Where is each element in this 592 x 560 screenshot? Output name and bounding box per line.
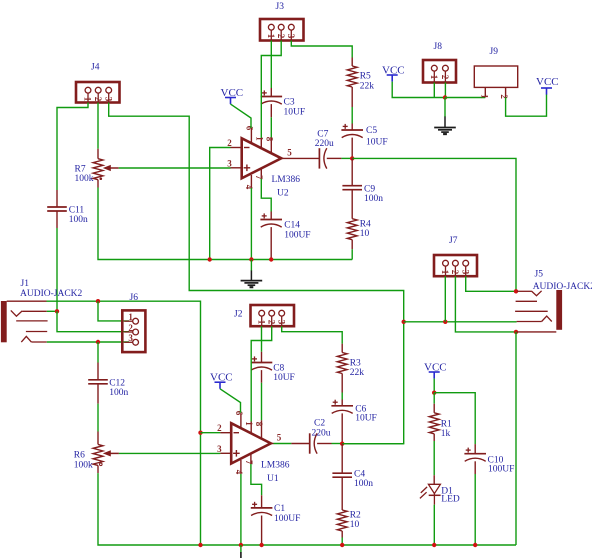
U1 pin8 lead xyxy=(254,420,264,438)
svg-text:100n: 100n xyxy=(354,479,373,489)
trimpot R7 100k xyxy=(75,149,119,188)
wire VCC to R1 xyxy=(433,393,435,404)
node J5 tip junction xyxy=(514,289,518,293)
capacitor C10 100UF xyxy=(464,444,514,474)
node upper output junction xyxy=(350,156,354,160)
wire output node to J5 tip xyxy=(352,158,516,291)
op-amp U2 LM386 xyxy=(242,138,301,198)
svg-text:10UF: 10UF xyxy=(284,108,306,118)
capacitor C4 100n xyxy=(332,444,373,510)
wire J1 ring to J6.3 xyxy=(47,341,129,343)
wire VCC down xyxy=(433,379,435,393)
wire U2 pin2 to GND rail xyxy=(210,148,231,260)
wire junction to J6.1 xyxy=(98,301,129,321)
svg-text:1: 1 xyxy=(429,75,439,80)
wire J2.1 to C8 xyxy=(261,326,263,352)
svg-text:J7: J7 xyxy=(449,236,458,246)
wire J7.3 to J5 tip xyxy=(466,276,516,291)
svg-text:22k: 22k xyxy=(350,368,365,378)
node U2 pin2 rail junction xyxy=(208,257,212,261)
wire J4.1 to C11 xyxy=(57,103,88,191)
svg-text:2: 2 xyxy=(128,323,133,333)
node C12 junction xyxy=(96,340,100,344)
wire J7.2 to J5 sleeve xyxy=(455,276,516,332)
svg-text:3: 3 xyxy=(103,97,113,102)
wire C10 to bottom rail xyxy=(474,474,476,545)
capacitor C3 10UF xyxy=(261,88,306,118)
svg-text:C8: C8 xyxy=(273,364,284,374)
wire J1 tip to node xyxy=(47,310,57,312)
svg-text:1: 1 xyxy=(128,312,133,322)
svg-text:C11: C11 xyxy=(69,206,85,216)
svg-text:2: 2 xyxy=(276,34,286,39)
capacitor C9 100n xyxy=(342,158,383,218)
resistor R5 22k xyxy=(347,58,374,108)
svg-text:1k: 1k xyxy=(441,429,451,439)
svg-text:C14: C14 xyxy=(284,221,300,231)
wire J8.1 stub xyxy=(433,83,435,98)
wire C11 to J1 tip node xyxy=(56,228,58,311)
capacitor C6 10UF xyxy=(331,400,376,444)
wire VCC to J8 junction xyxy=(392,82,445,98)
wire J5 sleeve to bottom rail xyxy=(515,332,517,545)
svg-text:J1: J1 xyxy=(21,279,30,289)
svg-text:J2: J2 xyxy=(234,310,243,320)
U1 pin4 lead xyxy=(234,460,244,475)
wire C2 to output node xyxy=(332,443,343,445)
wire ring line xyxy=(404,321,517,323)
wire U1 pin7 to C1 xyxy=(251,464,262,495)
node C10 rail junction xyxy=(473,543,477,547)
svg-text:3: 3 xyxy=(217,444,222,454)
VCC symbol above U1 xyxy=(210,372,233,389)
svg-text:100n: 100n xyxy=(69,215,88,225)
connector J8 xyxy=(423,42,456,83)
svg-text:5: 5 xyxy=(287,147,292,157)
resistor R2 10 xyxy=(337,510,361,538)
VCC symbol above U2 xyxy=(221,87,244,104)
svg-text:2: 2 xyxy=(93,97,103,102)
resistor R1 1k xyxy=(429,404,452,441)
svg-text:C4: C4 xyxy=(354,470,365,480)
svg-text:8: 8 xyxy=(254,422,264,427)
wire output node right xyxy=(342,443,404,445)
trimpot R6 100k xyxy=(74,432,119,474)
svg-text:100UF: 100UF xyxy=(284,231,310,241)
wire J2.2 to U1 pin1 xyxy=(251,326,272,421)
wire J3.1 to C3 xyxy=(270,41,272,89)
node J7.1 junction xyxy=(443,320,447,324)
svg-text:5: 5 xyxy=(277,432,282,442)
wire U1 pin4 to bottom rail xyxy=(240,474,242,545)
svg-text:6: 6 xyxy=(244,126,254,131)
svg-text:2: 2 xyxy=(450,270,460,275)
wire U2 pin7 to C14 xyxy=(261,179,271,212)
svg-text:2: 2 xyxy=(499,94,509,99)
capacitor C7 220u xyxy=(315,130,342,169)
U2 pin3 lead xyxy=(227,158,241,168)
svg-text:100n: 100n xyxy=(109,388,128,398)
svg-text:J6: J6 xyxy=(130,293,139,303)
wire J1 sleeve rail to U1 pin2 xyxy=(47,301,201,545)
svg-text:100k: 100k xyxy=(74,460,93,470)
svg-text:7: 7 xyxy=(244,460,254,465)
node C14 rail junction xyxy=(269,257,273,261)
svg-text:1: 1 xyxy=(254,136,264,141)
svg-text:J9: J9 xyxy=(490,47,499,57)
svg-text:1: 1 xyxy=(244,421,254,426)
svg-text:R2: R2 xyxy=(350,511,361,521)
svg-text:R5: R5 xyxy=(360,72,371,82)
svg-text:AUDIO-JACK2: AUDIO-JACK2 xyxy=(533,282,592,292)
svg-text:R4: R4 xyxy=(360,220,371,230)
svg-text:10UF: 10UF xyxy=(366,138,388,148)
op-amp U1 LM386 xyxy=(231,423,290,484)
LED D1 xyxy=(420,475,460,505)
svg-text:R1: R1 xyxy=(441,420,452,430)
wire J7.1 down xyxy=(444,276,446,322)
ground below U2 xyxy=(241,260,263,288)
svg-text:R3: R3 xyxy=(350,359,361,369)
svg-text:C2: C2 xyxy=(314,419,325,429)
svg-text:LED: LED xyxy=(441,495,460,505)
wire J4.2 to R7 xyxy=(97,103,99,149)
node feedback junction xyxy=(402,320,406,324)
node J1 tip junction xyxy=(55,309,59,313)
svg-text:1: 1 xyxy=(266,34,276,39)
capacitor C12 100n xyxy=(88,363,128,404)
wire C3 to U2 pin8 xyxy=(270,117,272,138)
capacitor C1 100UF xyxy=(251,495,301,545)
svg-text:220u: 220u xyxy=(315,139,334,149)
U2 pin5 lead xyxy=(281,147,319,158)
svg-text:C3: C3 xyxy=(284,98,295,108)
VCC symbol right of J9 xyxy=(536,76,559,95)
node lower output junction xyxy=(340,442,344,446)
svg-text:1: 1 xyxy=(83,97,93,102)
svg-text:U2: U2 xyxy=(277,189,289,199)
svg-text:22k: 22k xyxy=(360,82,375,92)
svg-text:C9: C9 xyxy=(364,185,375,195)
node VCC junction xyxy=(432,391,436,395)
svg-text:10: 10 xyxy=(360,229,370,239)
svg-text:10UF: 10UF xyxy=(355,414,377,424)
wire VCC to U1 pin6 xyxy=(220,389,241,413)
node J5 sleeve junction xyxy=(514,330,518,334)
svg-text:J4: J4 xyxy=(91,63,100,73)
svg-text:6: 6 xyxy=(234,411,244,416)
connector J4 xyxy=(76,63,120,103)
node D1 rail junction xyxy=(432,543,436,547)
svg-text:C5: C5 xyxy=(366,126,377,136)
svg-text:AUDIO-JACK2: AUDIO-JACK2 xyxy=(20,289,83,299)
svg-text:8: 8 xyxy=(264,137,274,142)
svg-text:2: 2 xyxy=(227,138,232,148)
wire R6 wiper to U1 pin3 xyxy=(119,452,220,454)
wire C8 to U1 pin8 xyxy=(261,383,263,421)
svg-text:2: 2 xyxy=(217,423,222,433)
capacitor C2 220u xyxy=(274,419,332,454)
svg-text:2: 2 xyxy=(266,320,276,325)
wire J3.3 to R5 xyxy=(291,41,352,58)
VCC symbol above R1 xyxy=(424,362,447,379)
svg-text:C12: C12 xyxy=(109,379,125,389)
svg-text:R7: R7 xyxy=(75,165,86,175)
wire tip node to J6.2 xyxy=(57,311,129,331)
svg-text:VCC: VCC xyxy=(221,87,244,99)
svg-text:J3: J3 xyxy=(276,2,285,12)
wire J8.2 stub xyxy=(444,83,446,98)
wire J3.2 to U2 pin1 xyxy=(261,41,281,139)
node J8 junction xyxy=(443,95,447,99)
svg-text:220u: 220u xyxy=(312,429,331,439)
wire U2 pin4 to GND rail xyxy=(250,188,252,260)
wire J4.3 feedback to U1 output node xyxy=(109,103,404,444)
svg-text:U1: U1 xyxy=(267,474,279,484)
wire R1 to D1 xyxy=(433,441,435,475)
svg-text:VCC: VCC xyxy=(424,362,447,374)
svg-text:VCC: VCC xyxy=(382,65,405,77)
wire R2 to bottom rail xyxy=(341,538,343,546)
svg-text:100n: 100n xyxy=(364,194,383,204)
wire R7 wiper to U2 pin3 xyxy=(119,167,231,169)
connector J9 xyxy=(474,47,517,99)
node C1 rail junction xyxy=(259,543,263,547)
svg-text:C1: C1 xyxy=(274,504,285,514)
node R2 rail junction xyxy=(340,543,344,547)
U2 pin6 lead xyxy=(244,126,254,144)
connector J5 AUDIO-JACK2 xyxy=(515,270,592,332)
svg-text:1: 1 xyxy=(440,270,450,275)
resistor R3 22k xyxy=(337,344,364,393)
wire J2.3 to R3 xyxy=(282,326,343,344)
capacitor C8 10UF xyxy=(251,352,295,383)
VCC symbol left of J8 xyxy=(382,65,405,82)
capacitor C5 10UF xyxy=(341,124,387,159)
svg-text:VCC: VCC xyxy=(210,372,233,384)
wire ring node to C12 xyxy=(97,342,99,363)
svg-text:100UF: 100UF xyxy=(274,514,300,524)
U2 pin2 lead xyxy=(227,138,241,148)
wire R4 to GND rail xyxy=(351,249,353,259)
capacitor C11 100n xyxy=(47,190,88,228)
capacitor C14 100UF xyxy=(260,212,310,260)
node rail junction at x200 xyxy=(198,543,202,547)
wire C7 to output node xyxy=(341,157,352,159)
ground below bottom rail xyxy=(240,545,242,558)
svg-text:3: 3 xyxy=(286,34,296,39)
svg-text:J8: J8 xyxy=(434,42,443,52)
wire R7 bottom to GND rail xyxy=(98,188,352,260)
svg-text:VCC: VCC xyxy=(536,76,559,88)
svg-text:LM386: LM386 xyxy=(272,175,301,185)
svg-text:LM386: LM386 xyxy=(261,461,290,471)
svg-text:100k: 100k xyxy=(75,174,94,184)
svg-text:10UF: 10UF xyxy=(273,373,295,383)
svg-text:4: 4 xyxy=(244,185,254,190)
wire R3 to C6 xyxy=(341,393,343,400)
U2 pin4 lead xyxy=(244,175,254,190)
node U2 pin4 rail junction xyxy=(249,257,253,261)
wire VCC to U2 pin6 xyxy=(231,104,252,128)
svg-text:10: 10 xyxy=(350,520,360,530)
svg-text:3: 3 xyxy=(460,270,470,275)
svg-text:3: 3 xyxy=(276,320,286,325)
node J6.1 junction xyxy=(96,299,100,303)
U1 pin7 lead xyxy=(244,454,254,466)
connector J6 xyxy=(122,293,145,352)
svg-text:J5: J5 xyxy=(535,270,544,280)
svg-text:4: 4 xyxy=(234,470,244,475)
U1 pin2 lead xyxy=(217,423,231,433)
U1 pin5 lead xyxy=(271,432,282,443)
wire R5 to C5 xyxy=(351,107,353,124)
wire C12 to R6 xyxy=(97,404,99,432)
svg-text:C7: C7 xyxy=(317,130,328,140)
connector J2 xyxy=(234,305,294,326)
connector J7 xyxy=(434,236,477,276)
svg-text:100UF: 100UF xyxy=(488,465,514,475)
node U1 pin2 junction xyxy=(198,431,202,435)
wire J9.2 to VCC xyxy=(506,95,547,117)
U2 pin8 lead xyxy=(264,137,274,154)
svg-text:1: 1 xyxy=(480,94,490,99)
U1 pin6 lead xyxy=(234,411,244,429)
svg-text:3: 3 xyxy=(227,158,232,168)
U2 pin7 lead xyxy=(254,169,264,181)
U1 pin3 lead xyxy=(217,444,231,454)
svg-text:2: 2 xyxy=(440,75,450,80)
U2 pin1 lead xyxy=(254,136,264,148)
svg-text:3: 3 xyxy=(128,333,133,343)
svg-text:R6: R6 xyxy=(74,451,85,461)
wire junction to J9.1 xyxy=(445,97,485,99)
svg-text:7: 7 xyxy=(254,175,264,180)
svg-text:1: 1 xyxy=(256,320,266,325)
node U1 pin4 rail junction xyxy=(239,543,243,547)
wire D1 to bottom rail xyxy=(433,505,435,545)
wire junction to C10 xyxy=(434,393,475,444)
wire U1 pin2 to junction xyxy=(201,432,221,434)
U1 pin1 lead xyxy=(244,421,254,433)
connector J3 xyxy=(260,2,304,41)
connector J1 AUDIO-JACK2 xyxy=(1,279,83,342)
ground below J8 xyxy=(434,98,456,135)
resistor R4 10 xyxy=(347,219,371,250)
wire R6 bottom to bottom rail xyxy=(98,473,516,545)
